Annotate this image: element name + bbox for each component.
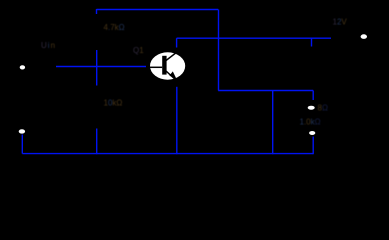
wire mid rail	[218, 90, 313, 92]
wire base node horizontal	[56, 66, 146, 68]
svg-text:Q1: Q1	[133, 46, 144, 55]
terminal battery V1 (top right)	[361, 34, 367, 39]
wire branch vertical	[272, 91, 274, 155]
wire right vertical from top rail	[218, 10, 220, 91]
wire top rail	[97, 9, 219, 11]
wire stub top of resistor R3	[311, 38, 313, 46]
svg-text:12V: 12V	[333, 18, 348, 27]
wire collector rail	[177, 37, 331, 39]
svg-text:1.0kΩ: 1.0kΩ	[300, 118, 321, 127]
svg-text:8Ω: 8Ω	[318, 104, 328, 113]
wire stub top of resistor R1	[96, 9, 98, 14]
wire emitter to ground rail	[176, 87, 178, 154]
wire ground rail	[22, 153, 313, 155]
svg-text:Uin: Uin	[41, 41, 56, 50]
wire left rail upper (R1 bottom to base node)	[96, 50, 98, 86]
terminal input (left middle)	[20, 65, 25, 69]
wire input terminal stub	[21, 135, 23, 154]
terminal input (lower left)	[19, 129, 25, 133]
transistor Q1	[150, 51, 185, 81]
wire to output terminal top	[312, 91, 314, 101]
wire left rail lower (R2 bottom to ground rail)	[96, 129, 98, 155]
wire collector stub	[176, 38, 178, 47]
svg-text:10kΩ: 10kΩ	[104, 99, 123, 108]
terminal output bottom	[309, 131, 315, 135]
svg-text:4.7kΩ: 4.7kΩ	[104, 23, 125, 32]
wire from output terminal bottom	[312, 137, 314, 155]
terminal output top	[308, 106, 315, 110]
